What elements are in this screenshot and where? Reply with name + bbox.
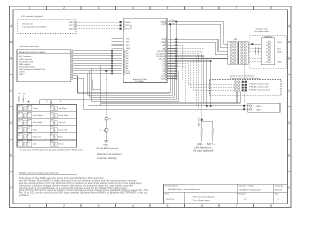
vertical drops to bus [204, 56, 211, 106]
IMU net labels VDD/SCL/SDA/GND [277, 42, 282, 63]
svg-text:F: F [288, 186, 290, 190]
svg-text:Top Right: Top Right [59, 107, 67, 110]
svg-text:P2: P2 [28, 114, 30, 116]
svg-text:BEC +: BEC + [257, 106, 264, 108]
left pin circles LCD group [123, 21, 125, 23]
svg-text:4: 4 [266, 52, 267, 54]
svg-text:7: 7 [236, 6, 238, 10]
svg-text:Rear: Rear [33, 128, 37, 131]
svg-text:Note Do not connect: Note Do not connect [97, 152, 122, 156]
svg-text:E: E [288, 154, 290, 158]
svg-text:P4: P4 [28, 128, 30, 130]
svg-text:GND: GND [126, 48, 131, 50]
svg-text:D6: D6 [18, 142, 20, 144]
svg-text:8: 8 [270, 6, 272, 10]
receiver module box [17, 50, 71, 82]
camera header drops [237, 92, 240, 104]
motor connector table [17, 105, 77, 148]
junction squares column [111, 50, 113, 74]
svg-text:Servo Left: Servo Left [59, 128, 68, 131]
svg-text:D3: D3 [50, 128, 52, 130]
svg-text:RXI: RXI [126, 42, 130, 44]
svg-text:D9: D9 [50, 107, 52, 109]
svg-text:J2M: J2M [234, 39, 238, 41]
svg-text:1: 1 [266, 42, 267, 44]
outer border [10, 6, 292, 207]
wire driver to ground [105, 132, 107, 140]
svg-text:VCC: VCC [126, 25, 131, 27]
svg-text:MCU interface ..: MCU interface .. [19, 55, 33, 58]
row cells [18, 105, 58, 146]
wire receiver aux down to bus [92, 80, 101, 90]
right pins top power [165, 21, 167, 23]
wire D10 to header row [167, 58, 228, 60]
svg-text:Full connection diagram: Full connection diagram [193, 196, 215, 199]
svg-text:GND: GND [126, 22, 131, 24]
wire rcv GND down [73, 78, 83, 109]
svg-text:2: 2 [63, 204, 65, 208]
svg-text:5: 5 [167, 6, 169, 10]
MCU pin labels GND/VCC/TXO [126, 22, 131, 31]
svg-text:software: software [19, 194, 29, 197]
svg-text:LIPO ALARM (Optional): LIPO ALARM (Optional) [96, 147, 118, 150]
svg-text:GND: GND [69, 22, 74, 24]
svg-text:6: 6 [201, 204, 203, 208]
svg-text:B: B [10, 56, 12, 60]
wire RAW to header [167, 22, 228, 44]
svg-text:TXO: TXO [126, 29, 130, 31]
svg-text:Rear: Rear [59, 135, 63, 138]
left group labels [33, 107, 43, 146]
svg-text:3: 3 [266, 48, 267, 50]
wire +5V bundle line [78, 92, 171, 94]
svg-text:MultiWii connection diagram wi: MultiWii connection diagram with Nunchuk [19, 172, 59, 175]
svg-text:RAW: RAW [161, 20, 166, 23]
receiver [17, 45, 122, 109]
wire D12 dashed to GND bus [177, 54, 199, 110]
camera headers [234, 81, 239, 92]
table row lines [17, 112, 77, 140]
buzzer LS1 [105, 117, 108, 120]
junction dot VDD [252, 43, 254, 45]
svg-text:PARALLAX GP FM 5CH RADIO: PARALLAX GP FM 5CH RADIO [19, 51, 46, 54]
wires receiver to MCU [73, 51, 122, 74]
receiver pin circles [71, 50, 73, 80]
svg-text:D11: D11 [18, 128, 21, 130]
wire D11 and D9 to drops [167, 56, 211, 61]
MCU left pin labels D2..GND [126, 51, 131, 75]
resistor R1 [201, 128, 203, 135]
wire D8 dashed to camera header [177, 64, 235, 85]
svg-text:GND: GND [126, 73, 131, 75]
wires into BEC [244, 106, 250, 109]
svg-text:A3 input (optional): A3 input (optional) [193, 149, 213, 152]
svg-text:D5: D5 [50, 114, 52, 116]
top ruler ticks [10, 6, 292, 207]
svg-text:P3: P3 [28, 121, 30, 123]
svg-text:S: S [55, 130, 56, 132]
wire D9 dashed to camera header [177, 61, 235, 88]
header J1 pins [230, 42, 236, 64]
paragraph [19, 172, 149, 198]
wire table column feed [50, 101, 52, 105]
svg-text:for stable mode: for stable mode [255, 30, 270, 33]
wire from table up [40, 22, 177, 105]
svg-text:GND: GND [277, 61, 282, 63]
svg-text:e.g. Sparkfun LCD-09394: e.g. Sparkfun LCD-09394 [22, 26, 46, 29]
svg-text:* In case of an Y6, Rear right: * In case of an Y6, Rear right is the to… [19, 148, 83, 151]
mcu [111, 18, 176, 83]
wire rcv +5V down [73, 76, 78, 93]
bus line signal [101, 102, 241, 104]
svg-text:VDD: VDD [277, 42, 282, 44]
svg-text:8: 8 [270, 204, 272, 208]
MCU pin labels RAW/VCC [161, 20, 166, 26]
bus line B1 [88, 105, 248, 107]
svg-text:2: 2 [63, 6, 65, 10]
wire SDA to header [167, 42, 228, 55]
svg-text:P1: P1 [28, 107, 30, 109]
left stub pins FTDI [111, 39, 123, 49]
svg-text:Rev: Rev [275, 194, 278, 196]
svg-text:B: B [288, 56, 290, 60]
header J1 body [228, 42, 238, 64]
svg-text:S: S [55, 137, 56, 139]
svg-text:Serial LCD: Serial LCD [22, 22, 33, 25]
svg-text:D9: D9 [50, 135, 52, 137]
svg-text:D9: D9 [18, 114, 20, 116]
svg-text:1: 1 [29, 204, 31, 208]
table [17, 93, 83, 151]
connection squares [120, 21, 122, 23]
BEC connector box [248, 103, 280, 112]
left pin circles receiver group [123, 50, 125, 75]
svg-text:4: 4 [132, 204, 134, 208]
svg-text:F: F [10, 186, 12, 190]
bottommid [96, 74, 281, 159]
battery monitor tap [201, 119, 203, 121]
wire buzzer to driver [105, 120, 107, 128]
junction dots on pin rows [175, 38, 177, 79]
GND rail [169, 24, 171, 93]
pull-up resistors [255, 47, 259, 54]
svg-text:6: 6 [266, 61, 267, 63]
svg-text:4: 4 [132, 6, 134, 10]
bus line B2 [83, 108, 248, 110]
ruler letters right [288, 24, 291, 190]
svg-text:S: S [55, 109, 56, 111]
svg-text:D5: D5 [18, 135, 20, 137]
svg-text:MultiWiiCopter - www.multi: MultiWiiCopter - www.multiwii.com [168, 188, 200, 191]
ruler numbers top [29, 6, 273, 10]
dashed wires SCL/SDA/GND into IMU [250, 49, 262, 62]
svg-text:P5: P5 [28, 135, 30, 137]
wire signal bundle line 4 [92, 68, 179, 102]
svg-text:LCD interface (optional): LCD interface (optional) [21, 15, 43, 18]
dashed wire A1 [177, 48, 204, 50]
resistor R2 [212, 128, 214, 135]
svg-text:S: S [55, 123, 56, 125]
MCU right pin labels SCL..GND [156, 39, 166, 80]
svg-text:SCL: SCL [161, 39, 165, 41]
svg-text:+5VDC: +5VDC [18, 95, 20, 102]
IMU pin numbers 1-6 [266, 42, 267, 63]
dashed wires to MCU [76, 22, 120, 29]
svg-text:Tri or Quad copter: Tri or Quad copter [193, 199, 210, 202]
svg-text:TXO: TXO [126, 39, 130, 41]
serial LCD module U3 (dashed optional box) [18, 19, 76, 33]
svg-text:2: 2 [266, 45, 267, 47]
pin labels [69, 22, 74, 31]
svg-text:Pin 10 or D11 can be used as A: Pin 10 or D11 can be used as Aux MIX inp… [19, 192, 148, 195]
svg-text:E: E [10, 154, 12, 158]
svg-text:PIN A2 Camera pitch: PIN A2 Camera pitch [250, 88, 271, 91]
svg-text:Top Left: Top Left [59, 121, 66, 124]
ruler numbers bottom [29, 204, 273, 208]
wire D11 dashed to +5V bus [177, 56, 196, 106]
IMU connector pins [268, 41, 271, 63]
svg-text:5: 5 [100, 130, 101, 132]
svg-text:1: 1 [29, 6, 31, 10]
svg-text:Date: Date [165, 193, 169, 196]
svg-text:7: 7 [236, 204, 238, 208]
svg-text:GND: GND [161, 78, 166, 80]
svg-text:SDA: SDA [277, 51, 282, 54]
svg-text:D6: D6 [50, 121, 52, 123]
titleblock [164, 184, 288, 204]
wire D7 dashed to bus [177, 66, 186, 103]
svg-text:Berkely: Berkely [275, 188, 283, 191]
MCU FTDI pin labels [126, 39, 131, 51]
leads [202, 135, 213, 141]
svg-text:RXD: RXD [69, 29, 74, 31]
svg-text:D3: D3 [18, 107, 20, 109]
svg-text:Front Right: Front Right [33, 114, 43, 117]
svg-text:5: 5 [167, 204, 169, 208]
wire signal bundle line 2 [88, 73, 173, 95]
header J2 [239, 42, 249, 64]
svg-text:PIN A0 Camera trig: PIN A0 Camera trig [250, 82, 270, 85]
svg-text:6: 6 [201, 6, 203, 10]
Arduino Pro Mini U1 [123, 18, 167, 82]
svg-text:PIN A1 Camera roll: PIN A1 Camera roll [250, 85, 269, 88]
junction dots rails top [175, 21, 177, 23]
wire A3 dashed down [177, 45, 183, 80]
transistor Q1 [104, 128, 108, 132]
inner border [13, 10, 288, 204]
svg-text:VCC: VCC [161, 24, 166, 26]
bus line B0 [100, 66, 102, 106]
row cell tiny texts [18, 107, 55, 147]
header J2 pins [241, 42, 247, 64]
pin circles [74, 21, 76, 23]
right pins main column [165, 38, 167, 79]
wire VDD into IMU [248, 43, 261, 45]
IMU dashed box [250, 35, 287, 69]
svg-text:LCD: LCD [131, 24, 133, 28]
short solid stubs before dashes [167, 45, 177, 78]
svg-text:P6: P6 [28, 142, 30, 144]
lcd [18, 15, 122, 34]
svg-text:Left: Left [33, 143, 37, 146]
LIPO alarm tap [105, 71, 107, 117]
wire SCL to header [167, 39, 228, 51]
svg-text:D10: D10 [18, 121, 21, 123]
svg-text:Front: Front [33, 107, 38, 110]
svg-text:Rear Left: Rear Left [33, 135, 41, 138]
wire VCC to header [167, 24, 228, 48]
svg-text:A3: A3 [163, 44, 165, 47]
svg-text:Circuit Diagram: Circuit Diagram [165, 185, 178, 188]
svg-text:MultiWii Tri/Quadcopter: MultiWii Tri/Quadcopter [240, 188, 262, 191]
midband [40, 22, 249, 117]
svg-text:3: 3 [98, 204, 100, 208]
svg-text:5V 16MHz: 5V 16MHz [135, 81, 144, 83]
svg-text:Revision: Revision [239, 194, 246, 196]
wire D13 dashed to battery monitor [177, 51, 201, 118]
svg-text:a buzzer directly: a buzzer directly [97, 156, 117, 160]
svg-text:Drawing ~ number: Drawing ~ number [239, 185, 255, 188]
ground [104, 141, 108, 143]
junction dot lipo tap [105, 70, 107, 72]
ruler letters left [10, 24, 13, 190]
wire D10 dashed to camera header [177, 59, 235, 91]
svg-text:BATT 12V: BATT 12V [198, 117, 201, 126]
wire signal bundle line 3 [90, 71, 175, 98]
svg-text:5: 5 [266, 55, 267, 57]
svg-text:Servo: Servo [59, 143, 64, 146]
svg-text:Servo Right: Servo Right [59, 114, 69, 117]
svg-text:GND: GND [103, 144, 108, 146]
svg-text:S: S [55, 116, 56, 118]
junction mark at table top [28, 101, 29, 102]
svg-text:VCC: VCC [69, 25, 74, 27]
svg-text:Drawn by: Drawn by [275, 185, 283, 188]
topright [167, 21, 286, 118]
svg-text:S: S [55, 144, 56, 146]
svg-text:Receiver connection: Receiver connection [20, 45, 40, 48]
svg-text:D10: D10 [50, 142, 53, 144]
wire header to BEC rail [243, 64, 245, 109]
svg-text:20-12-11: 20-12-11 [166, 199, 175, 201]
right group labels [59, 107, 69, 146]
svg-text:3: 3 [98, 6, 100, 10]
svg-text:BEC -: BEC - [257, 109, 263, 111]
svg-text:GND+5: GND+5 [23, 95, 25, 103]
svg-text:GND: GND [19, 74, 24, 76]
svg-text:Rear Right: Rear Right [33, 121, 43, 124]
